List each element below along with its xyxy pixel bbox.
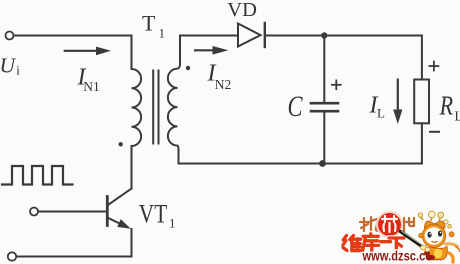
svg-text:1: 1 xyxy=(169,216,176,231)
arrow IL down xyxy=(397,79,399,112)
wire secondary top xyxy=(180,35,238,37)
text pian white outline xyxy=(404,218,414,233)
terminal base input xyxy=(30,208,38,216)
square wave drive signal xyxy=(2,166,73,185)
wire bottom secondary xyxy=(179,163,422,165)
transistor VT1 emitter xyxy=(107,218,120,224)
plus sign RL xyxy=(429,65,440,67)
pian strokes xyxy=(404,218,414,233)
wire top primary xyxy=(14,35,132,37)
red circle chip logo xyxy=(377,212,402,237)
svg-text:L: L xyxy=(377,106,385,121)
svg-text:L: L xyxy=(455,109,460,124)
svg-text:1: 1 xyxy=(159,26,166,41)
transformer core xyxy=(152,71,154,144)
capacitor C bottom plate xyxy=(311,110,338,113)
text zhao white outline xyxy=(360,217,378,231)
mascot crown balls xyxy=(418,213,422,217)
terminal bottom input xyxy=(8,252,16,260)
mascot head ring xyxy=(422,224,445,247)
mascot hand xyxy=(421,245,427,250)
xia xyxy=(389,238,404,252)
plus sign capacitor xyxy=(331,84,342,86)
zhao strokes xyxy=(360,217,378,231)
wire diode to right xyxy=(265,35,422,37)
mascot tail swoosh xyxy=(448,253,454,264)
mascot face xyxy=(425,227,443,244)
transformer T1 secondary winding xyxy=(168,36,180,164)
svg-text:N2: N2 xyxy=(215,77,232,92)
wire base xyxy=(38,211,106,213)
yi xyxy=(381,240,391,243)
mascot body xyxy=(429,247,448,260)
svg-text:i: i xyxy=(16,63,20,78)
arrow IN1 xyxy=(64,50,97,52)
mascot arm right xyxy=(445,244,458,247)
watermark dzsc logo xyxy=(343,211,460,263)
diode VD cathode bar xyxy=(264,23,266,47)
magnifier handle xyxy=(401,232,427,250)
svg-text:VT: VT xyxy=(139,201,168,229)
transistor VT1 collector xyxy=(107,189,131,206)
wire emitter vertical xyxy=(131,229,133,257)
junction node top xyxy=(321,32,327,38)
wire right branch down xyxy=(421,36,423,80)
junction node bottom xyxy=(319,160,326,167)
svg-text:C: C xyxy=(288,90,303,123)
mascot crown base xyxy=(425,221,446,228)
mascot ears xyxy=(419,233,424,238)
arrow IN2 xyxy=(194,49,214,51)
mascot feet xyxy=(426,255,435,261)
wire collector vertical xyxy=(131,146,133,189)
phase dot primary xyxy=(119,142,123,146)
mascot mouth xyxy=(432,241,438,242)
svg-text:VD: VD xyxy=(227,0,257,21)
wire capacitor top lead xyxy=(323,36,325,102)
text weiku yixia xyxy=(343,234,404,252)
transistor emitter arrowhead xyxy=(117,219,131,229)
svg-text:R: R xyxy=(439,91,453,121)
wire bottom return xyxy=(17,256,132,258)
capacitor C top plate xyxy=(311,102,338,105)
ku xyxy=(363,234,379,252)
svg-text:U: U xyxy=(0,53,17,77)
transformer T1 primary winding xyxy=(132,36,142,147)
resistor RL body xyxy=(414,80,429,124)
phase dot secondary xyxy=(186,66,190,70)
minus sign RL xyxy=(429,131,440,133)
diode VD triangle xyxy=(238,24,261,47)
transistor VT1 base bar xyxy=(106,197,109,226)
wire capacitor bottom lead xyxy=(323,113,325,164)
wei xyxy=(343,236,361,251)
svg-text:N1: N1 xyxy=(83,79,100,94)
svg-text:T: T xyxy=(142,10,156,35)
mascot eyes xyxy=(427,232,431,238)
terminal input top xyxy=(6,32,14,40)
wire resistor bottom xyxy=(421,123,423,163)
mascot crown stems xyxy=(421,217,446,225)
